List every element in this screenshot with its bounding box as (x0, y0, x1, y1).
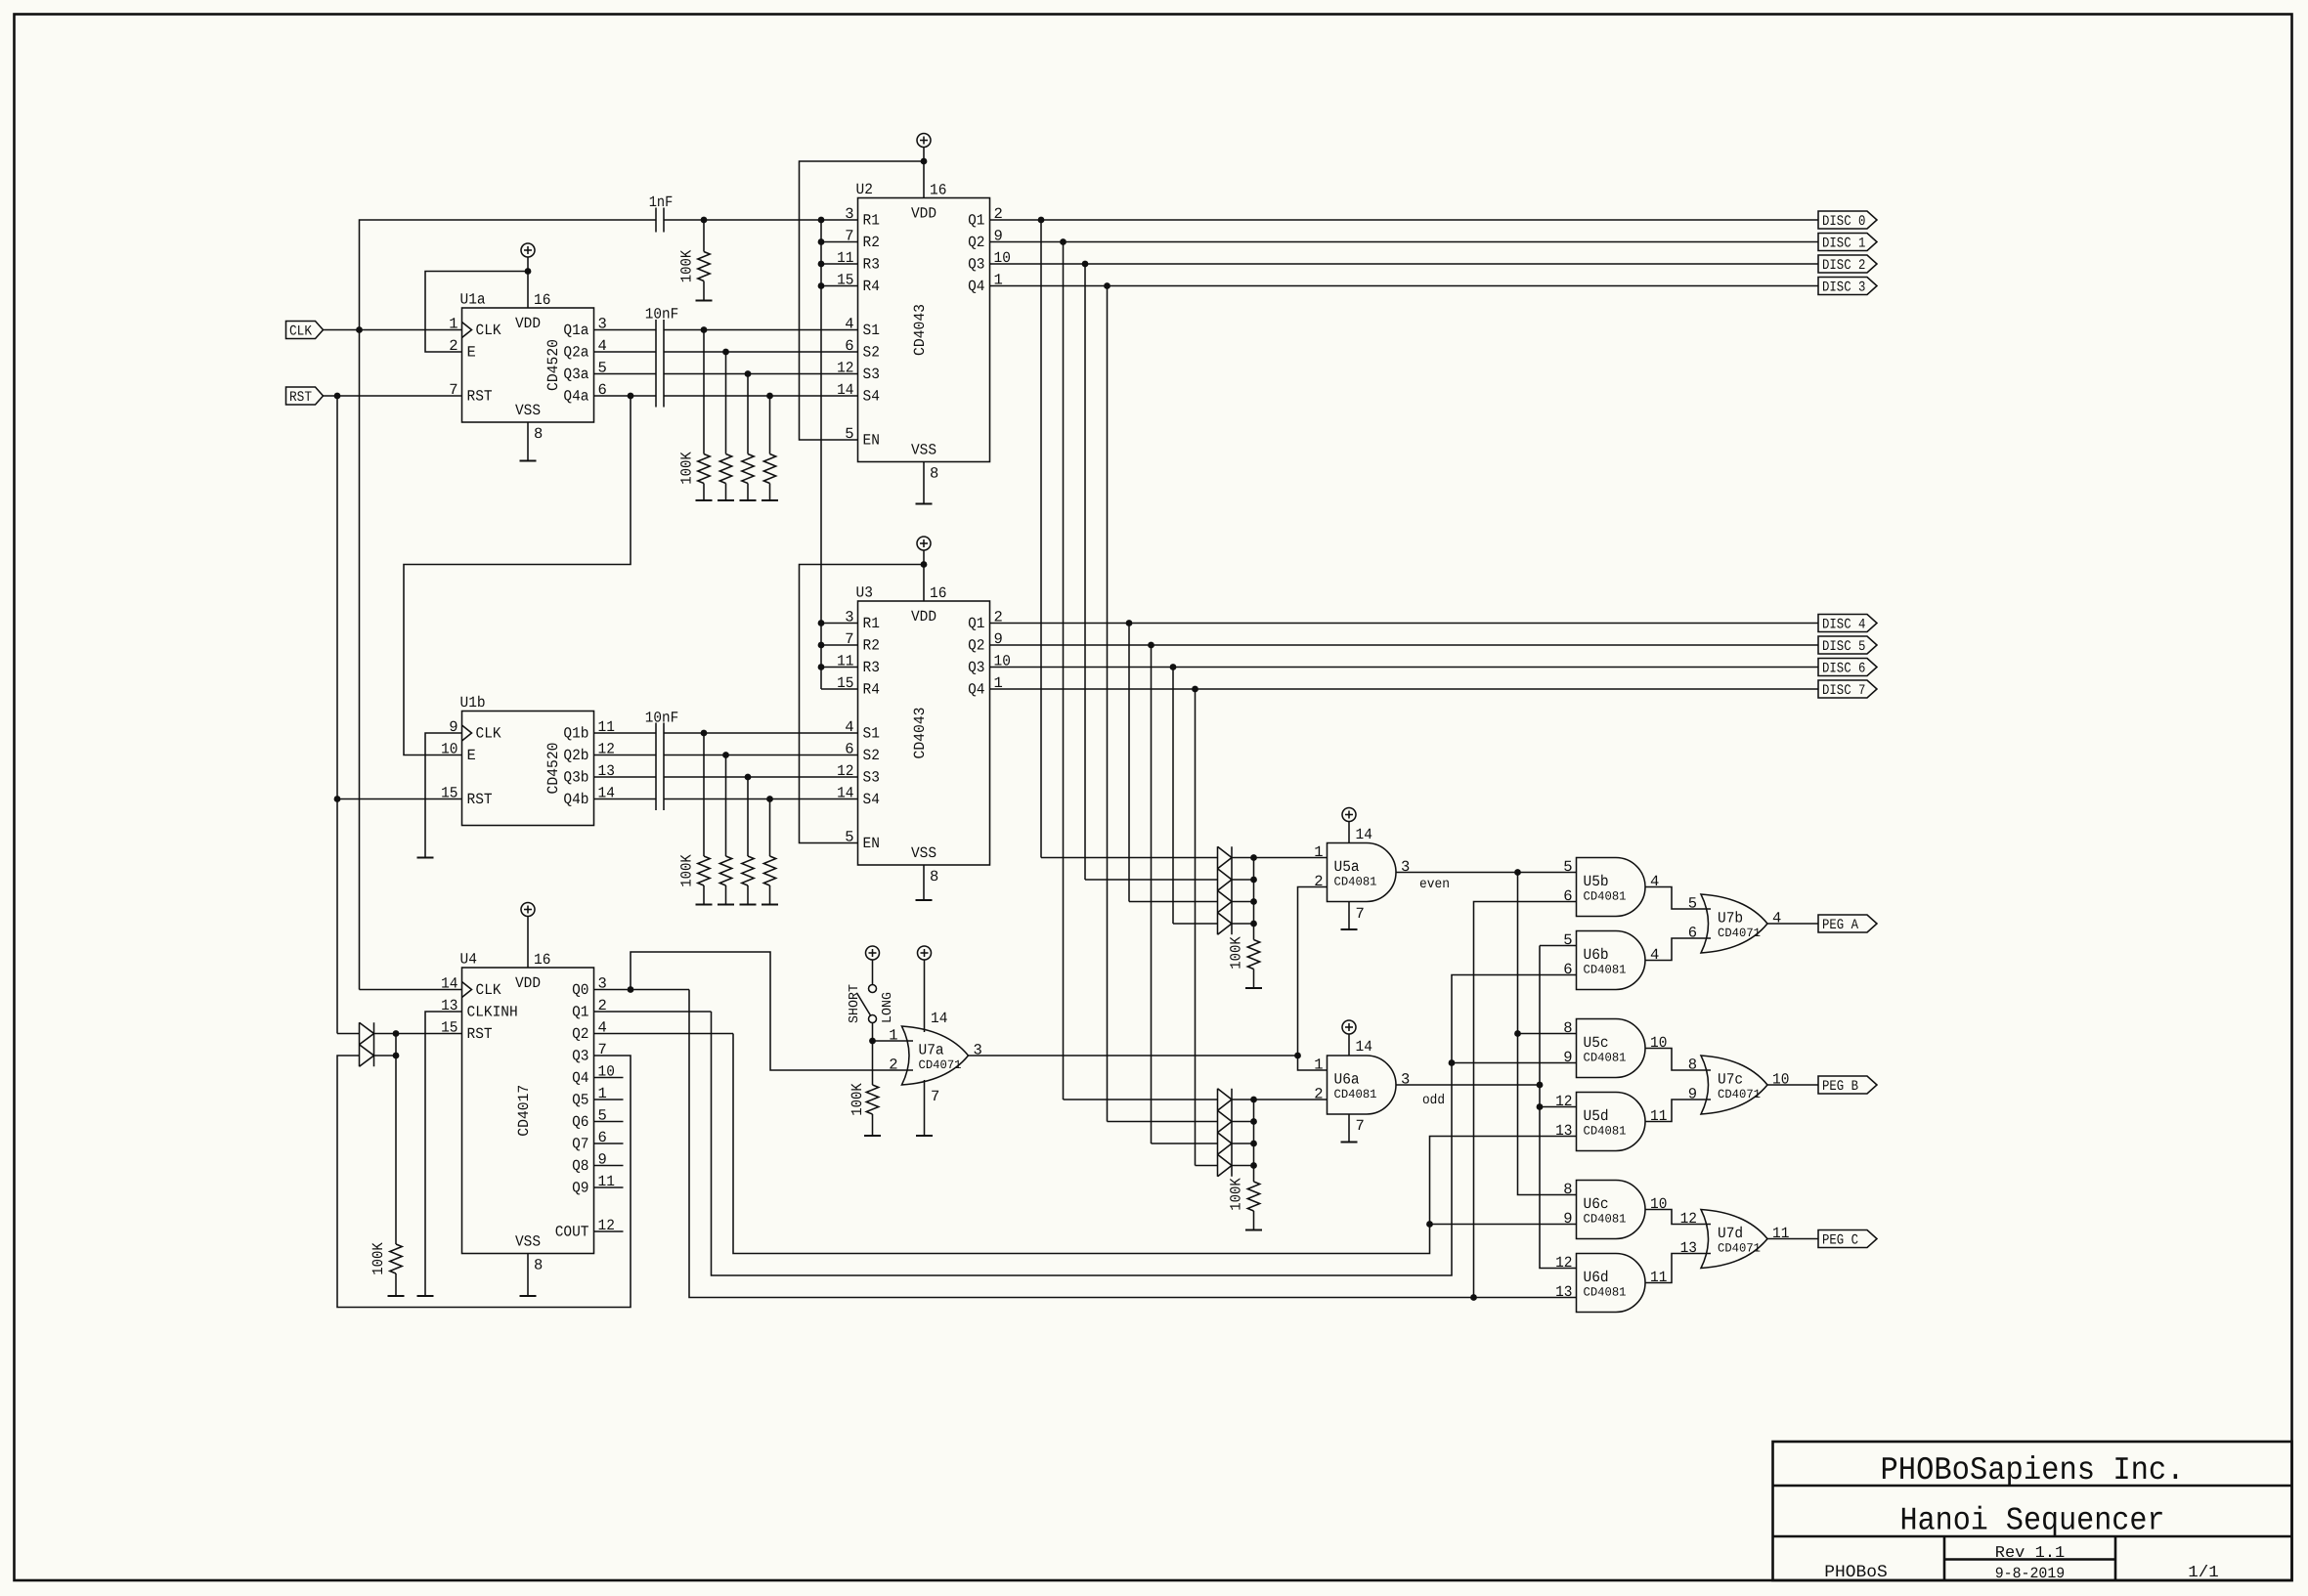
connector DISC 4 output (1818, 615, 1877, 633)
svg-text:CD4081: CD4081 (1584, 890, 1627, 904)
wire U7a ground stem (924, 1080, 926, 1136)
wire U2 Q1 to DISC 0 (990, 219, 1819, 221)
resistor 100K S2 pulldown U2 (718, 352, 734, 500)
wire U3 Q4 to DISC 7 (990, 688, 1819, 690)
wire even net (1396, 872, 1577, 874)
junction RST bus at U1b (334, 796, 341, 802)
wire U1b CLK to ground (425, 733, 462, 858)
resistor 100K S3 pulldown U3 (740, 777, 757, 905)
svg-text:U7b: U7b (1718, 910, 1743, 927)
wire Q1 branch to U5c pin9 (1452, 1062, 1577, 1064)
svg-text:100K: 100K (849, 1083, 866, 1116)
svg-text:16: 16 (930, 182, 946, 199)
svg-text:16: 16 (930, 584, 946, 602)
wire cap to U2 S y382.5 (664, 373, 858, 375)
resistor 100K odd node pulldown (1245, 1182, 1262, 1230)
wire U2 VDD stem (923, 161, 925, 198)
svg-text:Q2b: Q2b (563, 747, 588, 764)
wire U7a output (969, 1055, 1298, 1057)
svg-text:100K: 100K (1228, 1178, 1245, 1211)
svg-text:Q1a: Q1a (563, 322, 588, 339)
resistor 100K U4 RST pulldown (388, 1056, 405, 1296)
resistor 100K S1 pulldown U3 value 100K (678, 854, 696, 887)
junction U7a out split (1294, 1053, 1301, 1059)
wire U5b out to U7b pin5 (1645, 887, 1711, 910)
IC U1b CD4520 (441, 694, 615, 826)
junction R bus y660 (818, 642, 825, 649)
AND gate U6c CD4081 (1563, 1181, 1667, 1239)
wire U2 Q4 to DISC 3 (990, 285, 1819, 287)
svg-text:3: 3 (845, 205, 853, 223)
wire U4 Q2 net (594, 1033, 734, 1035)
junction R bus y247.5 (818, 238, 825, 245)
wires+junctions even ladder node (1232, 854, 1257, 939)
svg-text:S2: S2 (863, 747, 880, 764)
svg-text:1nF: 1nF (649, 194, 674, 211)
svg-text:1/1: 1/1 (2188, 1563, 2219, 1581)
svg-text:10nF: 10nF (645, 710, 679, 727)
svg-text:Q3a: Q3a (563, 366, 588, 383)
wire cap to U3 S y750 (664, 732, 858, 734)
wire U7a out to U5a pin2 (1298, 887, 1328, 1057)
svg-text:1: 1 (889, 1027, 897, 1045)
wire U2 Q3 to DISC 2 (990, 263, 1819, 265)
svg-text:Q3: Q3 (572, 1048, 588, 1065)
junction R bus y270 (818, 261, 825, 268)
svg-text:11: 11 (1650, 1107, 1667, 1125)
svg-text:U6c: U6c (1584, 1195, 1609, 1213)
svg-text:7: 7 (1356, 1117, 1365, 1135)
svg-text:7: 7 (1356, 905, 1365, 923)
wire cap to U3 S y772.5 (664, 755, 858, 756)
svg-text:16: 16 (534, 951, 550, 969)
wire U2 VDD rail and EN riser (800, 161, 925, 440)
AND gate U6b CD4081 (1563, 931, 1659, 990)
wire cap to U3 S y817.5 (664, 798, 858, 800)
svg-text:6: 6 (1563, 961, 1572, 978)
ground U4 VSS (520, 1295, 537, 1297)
svg-text:15: 15 (837, 674, 853, 692)
junction DISC 6 drop (1170, 664, 1177, 670)
svg-text:S4: S4 (863, 388, 880, 406)
svg-text:R4: R4 (863, 278, 880, 295)
resistor 100K 1nF pulldown (696, 220, 713, 301)
wire Q1 net riser and run (712, 975, 1577, 1276)
svg-text:8: 8 (930, 465, 938, 483)
wires+junctions odd ladder node (1232, 1097, 1257, 1182)
svg-text:12: 12 (1555, 1093, 1572, 1110)
svg-text:Rev 1.1: Rev 1.1 (1995, 1543, 2066, 1562)
svg-text:6: 6 (1688, 925, 1697, 942)
wire U1a Q to cap y405 (594, 395, 657, 397)
VCC symbol U7a pin14 (918, 946, 932, 1032)
wire U2 VSS stem (923, 462, 925, 504)
connector DISC 6 output (1818, 659, 1877, 677)
VCC symbol above U3 (917, 537, 931, 565)
wire U3 R pin stub y682.5 (821, 667, 858, 669)
wire U4 Q7 stub (594, 1143, 624, 1144)
svg-text:Q4b: Q4b (563, 791, 588, 808)
wire switch to U7a pin1 (873, 1023, 914, 1042)
svg-text:5: 5 (1563, 931, 1572, 949)
AND gate U5c CD4081 (1563, 1019, 1667, 1078)
resistor 100K S3 pulldown U2 (740, 374, 757, 501)
junction odd at U5d (1537, 1103, 1544, 1110)
ground U1b CLK tie (417, 857, 434, 859)
svg-text:DISC 2: DISC 2 (1822, 258, 1865, 274)
svg-text:DISC 6: DISC 6 (1822, 662, 1865, 677)
svg-text:U6d: U6d (1584, 1269, 1609, 1286)
resistor 100K even node pulldown value 100K (1228, 936, 1245, 970)
wire odd bus (1540, 946, 1577, 1269)
svg-text:13: 13 (1680, 1239, 1697, 1257)
resistor 100K even node pulldown (1245, 940, 1262, 989)
wire Q4a to U1b E (404, 396, 631, 755)
junction U4 RST node (393, 1030, 400, 1037)
wire U1a VSS stem (527, 422, 529, 461)
svg-text:CD4071: CD4071 (1718, 1242, 1761, 1256)
AND gate U5a CD4081 (1314, 843, 1410, 902)
junction even at U5c (1514, 1030, 1521, 1037)
AND gate U5b CD4081 (1563, 858, 1659, 917)
junction R bus y292.5 (818, 282, 825, 289)
junction DISC 4 drop (1126, 620, 1133, 626)
svg-text:CD4071: CD4071 (1718, 927, 1761, 940)
svg-text:Q2a: Q2a (563, 344, 588, 362)
resistor 100K S1 pulldown U2 (696, 330, 713, 501)
wire U4 Q4 stub (594, 1077, 624, 1079)
svg-text:VDD: VDD (911, 205, 936, 223)
svg-text:U6b: U6b (1584, 946, 1609, 964)
svg-text:CD4081: CD4081 (1584, 1052, 1627, 1065)
wire U4 Q1 net (594, 1011, 712, 1013)
wire RST bus to U1b RST (337, 798, 462, 800)
junction Q4a branch (628, 393, 634, 400)
svg-text:EN: EN (863, 432, 880, 450)
label U5a pin14 (1356, 826, 1372, 843)
junction diode node lower (393, 1053, 400, 1059)
wire DISC even row 3 (1173, 923, 1218, 925)
svg-text:VDD: VDD (911, 608, 936, 625)
ground U6a pin7 (1341, 1142, 1358, 1143)
svg-text:VSS: VSS (911, 844, 936, 862)
wire U4 RST pin (396, 1033, 462, 1035)
label odd (1422, 1093, 1445, 1108)
connector DISC 0 output (1818, 211, 1877, 230)
title sheet name (1900, 1503, 2165, 1539)
svg-text:Q1b: Q1b (563, 725, 588, 743)
wire U5a ground stem (1348, 902, 1350, 930)
wire U2 R pin stub y247.5 (821, 241, 858, 243)
svg-text:9-8-2019: 9-8-2019 (1995, 1565, 2066, 1582)
wire RST bus to diode anode (337, 1033, 360, 1035)
resistor 100K S2 pulldown U3 (718, 755, 734, 905)
title revision (1995, 1543, 2066, 1562)
svg-text:11: 11 (1772, 1225, 1789, 1242)
svg-text:U7a: U7a (919, 1042, 944, 1059)
svg-text:R2: R2 (863, 637, 880, 655)
svg-text:13: 13 (1555, 1283, 1572, 1301)
svg-text:CD4043: CD4043 (911, 708, 929, 759)
junction DISC 0 drop (1038, 217, 1045, 224)
svg-text:100K: 100K (678, 452, 696, 485)
svg-text:10: 10 (1650, 1195, 1667, 1213)
svg-text:S3: S3 (863, 366, 880, 383)
resistor 100K S1 pulldown U2 value 100K (678, 452, 696, 485)
svg-text:8: 8 (534, 1257, 543, 1274)
wire U1b Q to cap y795 (594, 776, 657, 778)
wire U4 VSS stem (527, 1254, 529, 1297)
svg-text:100K: 100K (678, 854, 696, 887)
svg-text:8: 8 (1563, 1019, 1572, 1037)
junction S4 resistor tap (766, 393, 773, 400)
wire DISC 1 drop (1063, 242, 1065, 1100)
junction S1 resistor tap (701, 326, 708, 333)
svg-text:S2: S2 (863, 344, 880, 362)
svg-text:U7c: U7c (1718, 1071, 1743, 1089)
svg-text:VDD: VDD (515, 315, 541, 332)
junction DISC 5 drop (1148, 642, 1154, 649)
capacitor 10nF bank U1b (656, 723, 664, 811)
wire U1a Q to cap y337.5 (594, 329, 657, 331)
capacitor 10nF bank U1a (656, 320, 664, 408)
ground U1a VSS (520, 460, 537, 462)
wire U2 R pin stub y270 (821, 263, 858, 265)
svg-text:U1a: U1a (460, 291, 486, 309)
junction even bus top (1514, 869, 1521, 876)
svg-text:3: 3 (1401, 858, 1410, 876)
wire cap to U2 S y405 (664, 395, 858, 397)
junction R bus y637.5 (818, 620, 825, 626)
wire DISC odd row 2 (1152, 1143, 1218, 1144)
connector DISC 5 output (1818, 636, 1877, 655)
svg-text:100K: 100K (1228, 936, 1245, 970)
wire U3 R pin stub y637.5 (821, 623, 858, 625)
wire DISC odd row 0 (1064, 1099, 1218, 1100)
svg-text:S1: S1 (863, 322, 880, 339)
svg-text:SHORT: SHORT (848, 984, 862, 1023)
wire Q0 net riser and run (689, 990, 1577, 1298)
wire U4 Q0 net (594, 989, 690, 991)
svg-text:DISC 1: DISC 1 (1822, 237, 1865, 252)
svg-text:VSS: VSS (515, 1233, 541, 1251)
svg-text:E: E (467, 344, 476, 362)
svg-text:10: 10 (1772, 1071, 1789, 1089)
svg-text:even: even (1419, 877, 1450, 892)
svg-text:S3: S3 (863, 769, 880, 787)
svg-text:6: 6 (845, 741, 853, 758)
junction DISC 3 drop (1104, 282, 1110, 289)
wire U4 Q5 stub (594, 1099, 624, 1100)
svg-text:CD4520: CD4520 (544, 339, 562, 391)
wire even to U5c pin8 (1518, 1033, 1577, 1035)
svg-text:8: 8 (534, 425, 543, 443)
svg-text:Q2: Q2 (968, 637, 984, 655)
ground U4 CLKINH (417, 1295, 434, 1297)
wire CLK bus to U4 CLK (360, 989, 462, 991)
svg-text:10nF: 10nF (645, 306, 679, 324)
svg-text:11: 11 (1650, 1269, 1667, 1286)
svg-text:U7d: U7d (1718, 1225, 1743, 1242)
svg-text:10: 10 (441, 741, 457, 758)
svg-text:9: 9 (1563, 1210, 1572, 1228)
title block (1773, 1442, 2292, 1580)
wire U1a Q to cap y360 (594, 351, 657, 353)
svg-text:3: 3 (845, 609, 853, 626)
connector PEG A output (1818, 915, 1877, 933)
junction odd bus (1537, 1082, 1544, 1089)
svg-text:CLK: CLK (476, 322, 502, 339)
wire RST bus vertical (336, 396, 338, 1034)
wire DISC 2 drop (1084, 264, 1086, 880)
connector PEG B output (1818, 1076, 1877, 1095)
diode ladder odd (4 diodes) (1218, 1089, 1233, 1177)
svg-text:PHOBoSapiens Inc.: PHOBoSapiens Inc. (1881, 1452, 2185, 1488)
wire 1nF to U2 R1 (664, 219, 858, 221)
resistor 100K U7a pin1 pulldown value 100K (849, 1083, 866, 1116)
wire odd net (1396, 1084, 1540, 1086)
wire cap to U2 S y337.5 (664, 329, 858, 331)
OR gate U7a CD4071 (889, 1026, 982, 1085)
wire cap to U2 S y360 (664, 351, 858, 353)
wire odd to U6b pin5 (1540, 945, 1577, 947)
wire U5c out to U7c pin8 (1645, 1049, 1711, 1071)
svg-text:Q3: Q3 (968, 659, 984, 676)
label 10nF upper (645, 306, 679, 324)
wire U3 VSS stem (923, 865, 925, 900)
svg-text:CD4081: CD4081 (1584, 1125, 1627, 1139)
svg-text:5: 5 (1688, 895, 1697, 913)
svg-text:RST: RST (467, 1025, 493, 1043)
svg-text:3: 3 (974, 1042, 982, 1059)
resistor 100K U4 RST pulldown value 100K (370, 1242, 387, 1275)
wire DISC odd row 3 (1196, 1165, 1218, 1167)
svg-text:9: 9 (1688, 1086, 1697, 1103)
wire DISC 5 drop (1151, 645, 1153, 1143)
svg-text:2: 2 (1314, 873, 1323, 890)
junction 1nF resistor tap (701, 217, 708, 224)
VCC symbol above U4 (521, 903, 535, 931)
svg-text:RST: RST (467, 791, 493, 808)
svg-text:DISC 5: DISC 5 (1822, 639, 1865, 655)
junction RST net at x345 (334, 393, 341, 400)
junction U3 VDD rail (921, 561, 928, 568)
IC U3 CD4043 (837, 584, 1011, 886)
wire DISC 7 drop (1195, 689, 1197, 1166)
svg-text:Q4: Q4 (968, 681, 984, 699)
svg-text:8: 8 (1688, 1057, 1697, 1074)
wire R bus x840 (820, 220, 822, 689)
connector PEG C output (1818, 1230, 1877, 1249)
junction S2 resistor tap U3 (722, 752, 729, 758)
svg-text:DISC 3: DISC 3 (1822, 280, 1865, 296)
svg-text:Q4a: Q4a (563, 388, 588, 406)
wire DISC even row 1 (1085, 879, 1218, 881)
wire RST input to U1a pin7 (323, 395, 462, 397)
OR gate U7c CD4071 (1688, 1056, 1790, 1114)
resistor 100K U7a pin1 pulldown (864, 1041, 881, 1136)
wire DISC odd row 1 (1108, 1121, 1218, 1123)
svg-text:U5d: U5d (1584, 1107, 1609, 1125)
wire Q0 riser to U5b pin6 (1474, 902, 1577, 1298)
svg-text:PHOBoS: PHOBoS (1824, 1563, 1888, 1582)
VCC symbol above mode switch (866, 946, 880, 985)
wire DISC 0 drop (1040, 220, 1042, 858)
svg-text:CD4081: CD4081 (1334, 876, 1377, 889)
wire DISC even row 0 (1041, 857, 1218, 859)
VCC symbol U6a pin14 (1342, 1020, 1356, 1056)
svg-text:R2: R2 (863, 234, 880, 251)
svg-text:R1: R1 (863, 615, 880, 632)
label even (1419, 877, 1450, 892)
OR gate U7b CD4071 (1688, 894, 1782, 953)
svg-text:Q0: Q0 (572, 981, 588, 999)
svg-text:4: 4 (1772, 910, 1781, 927)
svg-text:Q4: Q4 (968, 278, 984, 295)
wire DISC 3 drop (1107, 286, 1109, 1122)
wire U3 Q3 to DISC 6 (990, 667, 1819, 669)
connector CLK input (286, 322, 324, 340)
svg-text:E: E (467, 747, 476, 764)
junction CLK net at x367 (356, 326, 363, 333)
junction S3 resistor tap U3 (745, 774, 752, 781)
svg-text:R3: R3 (863, 256, 880, 274)
wire U2 Q2 to DISC 1 (990, 241, 1819, 243)
wire CLK net up to 1nF row (360, 220, 657, 330)
junction Q1 branch (1449, 1059, 1456, 1066)
wire U3 R pin stub y660 (821, 644, 858, 646)
wire DISC even row 2 (1129, 901, 1218, 903)
svg-text:DISC 0: DISC 0 (1822, 214, 1865, 230)
svg-text:PEG A: PEG A (1822, 918, 1858, 933)
svg-text:U1b: U1b (460, 694, 486, 712)
wire odd node to U6a pin2 (1254, 1099, 1328, 1100)
svg-text:Q1: Q1 (968, 212, 984, 230)
svg-text:PEG C: PEG C (1822, 1233, 1858, 1249)
connector DISC 7 output (1818, 680, 1877, 699)
svg-text:CD4081: CD4081 (1584, 1213, 1627, 1227)
svg-text:U5b: U5b (1584, 873, 1609, 890)
svg-text:Q6: Q6 (572, 1113, 588, 1131)
wire Q2 branch to U6c pin9 (1430, 1224, 1577, 1226)
svg-text:16: 16 (534, 291, 550, 309)
VCC symbol U5a pin14 (1342, 808, 1356, 843)
wire U7c out to PEG B (1767, 1084, 1818, 1086)
svg-text:3: 3 (1401, 1071, 1410, 1089)
AND gate U6a CD4081 (1314, 1056, 1410, 1114)
svg-text:DISC 7: DISC 7 (1822, 683, 1865, 699)
junction Q0 branch to U7a (628, 986, 634, 993)
wire CLK input to U1a pin1 (323, 329, 462, 331)
svg-text:CD4081: CD4081 (1584, 964, 1627, 977)
wire U2 R pin stub y292.5 (821, 285, 858, 287)
label 1nF (649, 194, 674, 211)
junction S2 resistor tap (722, 349, 729, 356)
wire U1a E to VDD rail (425, 272, 528, 353)
IC U1a CD4520 (449, 291, 607, 444)
svg-text:Q4: Q4 (572, 1069, 588, 1087)
svg-text:U3: U3 (856, 584, 873, 602)
svg-text:10: 10 (1650, 1034, 1667, 1052)
resistor 100K odd node pulldown value 100K (1228, 1178, 1245, 1211)
svg-text:Q8: Q8 (572, 1157, 588, 1175)
svg-text:CD4081: CD4081 (1334, 1088, 1377, 1101)
title author PHOBoS (1824, 1563, 1888, 1582)
svg-text:R3: R3 (863, 659, 880, 676)
resistor 100K 1nF pulldown value 100K (678, 249, 696, 282)
OR gate U7d CD4071 (1680, 1210, 1790, 1269)
diodes D1 D2 reset-OR for U4 (360, 1022, 374, 1066)
